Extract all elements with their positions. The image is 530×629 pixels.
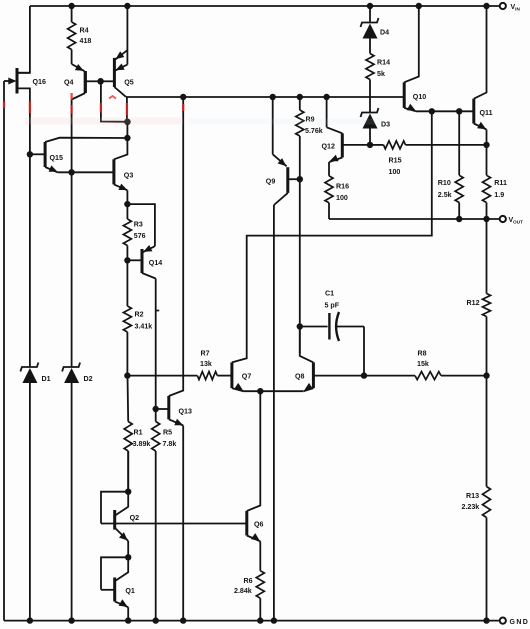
svg-text:Q6: Q6: [254, 521, 264, 529]
resistor R7: [197, 372, 217, 380]
svg-text:D1: D1: [42, 375, 51, 383]
wire ground rail: [4, 620, 503, 622]
transistor Q12 (mirrored): [326, 97, 328, 127]
svg-text:R5: R5: [163, 429, 172, 437]
resistor R3: [126, 204, 128, 219]
node R3 bottom / Q14 base: [124, 257, 130, 263]
wire middle column down to Q15 collector node: [126, 122, 128, 138]
node collector rail / R9: [297, 94, 303, 100]
resistor R6: [259, 541, 261, 570]
svg-text:D4: D4: [380, 29, 389, 37]
wire Q9 collector to ground rail: [273, 205, 275, 621]
svg-text:R6: R6: [244, 577, 253, 585]
node R15 right / Q11 emitter / R11: [483, 142, 489, 148]
node Q5-Q3 collector junction: [124, 135, 130, 141]
node ground / Q13 emitter: [180, 617, 186, 623]
svg-text:Q9: Q9: [266, 178, 276, 186]
resistor R5: [152, 422, 160, 452]
node collector rail / Q9 emitter: [270, 94, 276, 100]
svg-text:Q1: Q1: [125, 587, 135, 595]
node Q2 emitter / Q1 collector: [125, 554, 131, 560]
node Q15 base / left column: [27, 151, 33, 157]
wire Q2 base-collector loop: [101, 492, 128, 524]
svg-text:C1: C1: [325, 290, 334, 298]
resistor R4: [71, 6, 73, 22]
node R2 bottom / R7 line: [124, 372, 130, 378]
node Q15 emitter / Q4 collector column: [68, 169, 74, 175]
resistor R15: [370, 144, 384, 146]
node ground / Q1 emitter: [125, 617, 131, 623]
wire Q2-Q6 base rail: [101, 523, 247, 525]
svg-text:GND: GND: [510, 619, 530, 626]
node V-out / R11-R12: [483, 216, 489, 222]
svg-text:418: 418: [80, 37, 92, 45]
wire Q4 collector down to Q15 emitter node: [71, 100, 73, 173]
transistor Q4 (pnp): [84, 71, 87, 93]
terminal V-IN: [500, 3, 506, 9]
wire R1 bottom to Q2 collector: [127, 451, 129, 492]
resistor R13: [486, 376, 488, 487]
svg-text:R8: R8: [418, 350, 427, 358]
wire Q4 column to D2: [71, 172, 73, 367]
transistor Q7: [230, 362, 233, 388]
node V-out / R10: [456, 216, 462, 222]
svg-text:R2: R2: [135, 311, 144, 319]
wire top-left drop to Q16 drain: [17, 6, 30, 73]
transistor Q14 (pnp): [127, 204, 154, 246]
wire V-out rail: [329, 218, 503, 220]
wire Q7-Q8 emitter tie: [243, 390, 303, 392]
node emitter tie / Q6 collector: [257, 388, 263, 394]
svg-text:R15: R15: [389, 157, 402, 165]
wire V-in top rail: [30, 5, 503, 7]
svg-text:Q8: Q8: [295, 373, 305, 381]
wire Q10 emitter to Q11 base: [416, 110, 474, 112]
transistor Q5 (pnp, double emitter): [113, 58, 116, 87]
svg-text:100: 100: [336, 194, 348, 202]
svg-text:Q2: Q2: [130, 514, 140, 522]
resistor R9: [299, 97, 301, 110]
capacitor C1: [300, 326, 328, 328]
resistor R12: [486, 219, 488, 294]
svg-text:R16: R16: [336, 183, 349, 191]
node top rail / Q10 collector: [416, 3, 422, 9]
transistor Q1 (diode connected): [113, 578, 116, 602]
watermark red marks: [4, 93, 183, 116]
svg-text:100: 100: [389, 168, 401, 176]
wire Q1 base-collector loop: [101, 557, 128, 590]
transistor Q15: [44, 142, 47, 167]
node ground / D1: [27, 617, 33, 623]
svg-text:Q13: Q13: [179, 408, 192, 416]
svg-text:5.76k: 5.76k: [305, 127, 323, 135]
transistor Q8 (mirrored): [312, 362, 315, 388]
svg-text:Q7: Q7: [242, 373, 252, 381]
diode D3 (zener): [361, 108, 379, 117]
diode D2 (zener): [62, 363, 80, 372]
node top rail / Q5 emitters: [124, 3, 130, 9]
node top rail / R4: [68, 3, 74, 9]
svg-text:3.89k: 3.89k: [133, 440, 151, 448]
svg-text:R12: R12: [467, 299, 480, 307]
node R12 bottom / R8: [483, 372, 489, 378]
resistor R10: [458, 111, 460, 175]
resistor R1: [127, 376, 130, 422]
node ground / D2: [68, 617, 74, 623]
transistor Q2 (diode connected): [113, 510, 116, 530]
svg-text:R13: R13: [466, 492, 479, 500]
transistor Q11: [472, 99, 475, 124]
node Q3 emitter node: [124, 201, 130, 207]
wire R2-bottom to R7: [127, 375, 197, 377]
svg-text:R3: R3: [134, 221, 143, 229]
node ground / Q9 collector: [271, 617, 277, 623]
svg-text:Q14: Q14: [149, 259, 162, 267]
svg-text:Q16: Q16: [33, 78, 46, 86]
node Q2 collector/loop: [125, 489, 131, 495]
transistor Q16: [16, 68, 19, 94]
node Q8 base / C1 / R8: [361, 372, 367, 378]
terminal GND: [500, 618, 506, 624]
svg-text:R10: R10: [438, 179, 451, 187]
wire left column to D1: [29, 154, 31, 367]
node emitter rail / Q7 collector riser: [429, 108, 435, 114]
svg-text:R14: R14: [377, 59, 390, 67]
svg-text:Q15: Q15: [50, 154, 63, 162]
node ground / R6: [257, 617, 263, 623]
node Q13 base / R5 column: [153, 406, 159, 412]
transistor Q6: [245, 511, 248, 536]
svg-text:5k: 5k: [377, 70, 385, 78]
svg-text:Q5: Q5: [124, 79, 134, 87]
node top rail / D4: [367, 3, 373, 9]
wire Q14 collector down to Q13 base / R5: [155, 279, 157, 422]
resistor R16: [328, 162, 330, 176]
svg-text:576: 576: [134, 232, 146, 240]
svg-text:2.23k: 2.23k: [462, 503, 480, 511]
wire R7 to Q7 base: [217, 375, 232, 377]
node ground / R5: [153, 617, 159, 623]
node collector rail / long vertical: [180, 94, 186, 100]
wire R9 column down to Q8 collector: [299, 179, 301, 353]
svg-text:13k: 13k: [200, 360, 212, 368]
wire far-left vertical (Q16 gate to ground rail): [3, 81, 5, 621]
svg-text:Q11: Q11: [480, 109, 493, 117]
node Q5 collector/base box: [124, 119, 131, 126]
svg-text:Q10: Q10: [413, 93, 426, 101]
resistor R11: [486, 145, 488, 175]
node Q12 base / D3 bottom: [367, 142, 373, 148]
node Q9 base: [297, 176, 303, 182]
svg-text:Q12: Q12: [322, 143, 335, 151]
resistor R8: [364, 375, 415, 377]
svg-text:Q4: Q4: [64, 79, 74, 87]
svg-text:R7: R7: [201, 350, 210, 358]
diode D4 (zener): [369, 6, 371, 23]
svg-text:R11: R11: [494, 179, 507, 187]
transistor Q3: [112, 159, 115, 184]
wire Q5 base-collector tie box: [101, 81, 128, 122]
svg-text:2.84k: 2.84k: [234, 587, 252, 595]
wire Q5 collector drop: [126, 97, 128, 122]
svg-text:15k: 15k: [417, 360, 429, 368]
svg-text:5 pF: 5 pF: [325, 302, 340, 310]
node C1 left / R9 column: [297, 323, 303, 329]
node Q4/Q5 base tie: [97, 78, 104, 85]
resistor R14: [366, 54, 374, 80]
terminal V-OUT: [500, 216, 506, 222]
diode D1 (zener): [20, 363, 38, 372]
svg-text:Q3: Q3: [124, 172, 134, 180]
svg-text:1.9: 1.9: [494, 191, 504, 199]
node emitter rail / R10: [456, 108, 462, 114]
transistor Q9 (pnp): [272, 97, 274, 154]
transistor Q13: [167, 396, 170, 419]
transistor Q10: [403, 82, 406, 108]
resistor R2: [126, 260, 128, 306]
svg-text:3.41k: 3.41k: [135, 323, 153, 331]
svg-text:R4: R4: [80, 27, 89, 35]
svg-text:2.5k: 2.5k: [438, 191, 452, 199]
node ground / R13: [483, 617, 489, 623]
svg-text:R1: R1: [134, 429, 143, 437]
node top rail / Q11 collector: [483, 3, 489, 9]
svg-text:7.8k: 7.8k: [163, 440, 177, 448]
wire Q5 collector rail: [126, 96, 404, 98]
svg-text:D2: D2: [84, 375, 93, 383]
node collector rail / Q12 collector: [323, 94, 329, 100]
